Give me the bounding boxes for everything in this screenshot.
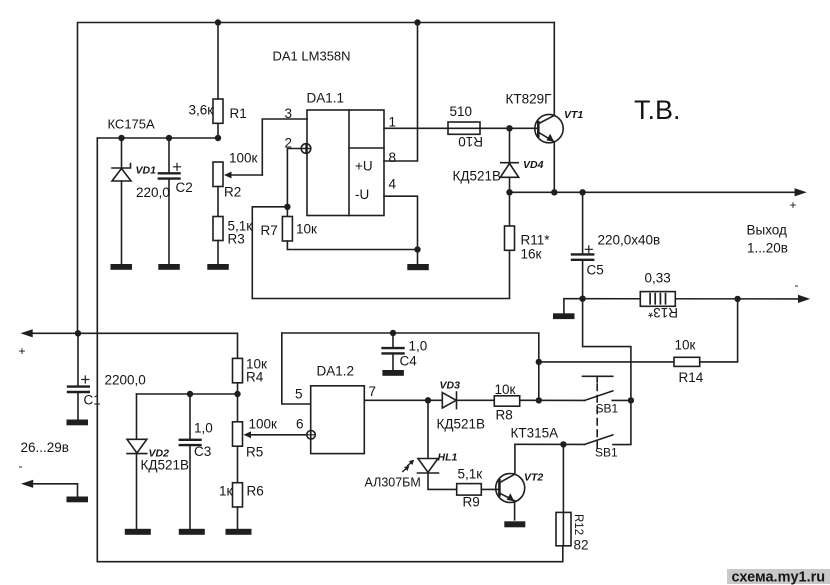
node junction C3 top — [187, 391, 193, 397]
svg-text:HL1: HL1 — [438, 452, 458, 464]
value label 510 — [450, 104, 473, 119]
svg-text:10к: 10к — [495, 382, 516, 397]
resistor R1 — [213, 23, 223, 139]
ground input — [67, 497, 89, 503]
node junction VD4 bottom — [506, 189, 512, 195]
svg-text:R3: R3 — [228, 232, 245, 247]
capacitor C3 — [180, 394, 201, 529]
svg-text:КТ829Г: КТ829Г — [506, 92, 553, 107]
svg-text:DA1.1: DA1.1 — [307, 91, 345, 106]
svg-text:510: 510 — [450, 104, 473, 119]
resistor R7 — [282, 207, 417, 250]
label R9 — [463, 495, 480, 510]
value label 1,0 C4 — [409, 339, 428, 354]
svg-text:SB1: SB1 — [596, 402, 619, 416]
svg-text:100к: 100к — [229, 151, 258, 166]
value label 10к R14 — [675, 338, 696, 353]
svg-text:5,1к: 5,1к — [458, 467, 483, 482]
label АЛ307БМ — [365, 476, 421, 490]
svg-text:10к: 10к — [296, 222, 317, 237]
resistor R12 — [556, 444, 571, 545]
svg-text:R5: R5 — [246, 445, 263, 460]
label VD1 — [136, 165, 157, 177]
node junction R14 riser — [734, 296, 740, 302]
ground VD1 — [111, 264, 133, 270]
node junction VD1 top — [118, 135, 124, 141]
value label 1к — [219, 484, 233, 499]
label R1 — [230, 106, 247, 121]
node junction C5 bottom — [579, 296, 585, 302]
node junction SB1 right — [628, 397, 634, 403]
label SB1 lower — [595, 446, 618, 460]
node junction C2 top — [166, 135, 172, 141]
label HL1 — [438, 452, 458, 464]
wire VT2 collector line — [515, 443, 584, 445]
node junction VD4 top — [506, 125, 512, 131]
value label 5,1к R9 — [458, 467, 483, 482]
label VT1 — [564, 109, 583, 121]
label R3 — [228, 232, 245, 247]
svg-text:R12: R12 — [572, 514, 584, 535]
LED arrows HL1 — [403, 460, 414, 472]
value label 3,6к — [189, 103, 214, 118]
label VT2 — [524, 472, 543, 484]
label SB1 upper — [596, 402, 619, 416]
label R12 (rotated) — [572, 514, 584, 535]
label VD2 — [149, 448, 170, 460]
svg-text:C4: C4 — [400, 354, 418, 369]
svg-text:4: 4 — [389, 177, 397, 192]
op-amp U DA1.1 — [307, 110, 384, 216]
svg-text:VD1: VD1 — [136, 165, 157, 177]
wire output positive rail — [510, 188, 807, 196]
diode VD2 — [127, 394, 147, 529]
value label 5,1к — [228, 219, 253, 234]
capacitor C1 — [68, 333, 89, 419]
label C1 — [84, 393, 101, 408]
potentiometer R5 — [233, 394, 307, 446]
value label 1,0 C3 — [194, 421, 213, 436]
transistor VT2 — [496, 444, 525, 520]
label КД521В VD3 — [437, 417, 486, 432]
svg-text:26...29в: 26...29в — [21, 440, 69, 455]
svg-text:Выход: Выход — [747, 223, 788, 238]
svg-text:КС175А: КС175А — [108, 117, 156, 132]
svg-text:VD3: VD3 — [440, 380, 461, 392]
diode VD3 — [442, 392, 456, 409]
svg-text:1,0: 1,0 — [194, 421, 213, 436]
wire bottom return loop — [97, 138, 563, 562]
label -U — [355, 187, 369, 202]
ground VD2 — [125, 529, 151, 535]
svg-text:3: 3 — [285, 106, 293, 121]
label C3 — [194, 444, 211, 459]
label КТ829Г — [506, 92, 553, 107]
pin number 6 — [296, 417, 304, 432]
wire VD2/C3/R4 node — [137, 393, 238, 395]
svg-text:+U: +U — [355, 159, 373, 174]
pin number 3 — [285, 106, 293, 121]
wire pin 3 — [262, 119, 307, 175]
svg-text:-U: -U — [355, 187, 369, 202]
node junction pin4/R7 — [414, 246, 420, 252]
svg-text:Т.В.: Т.В. — [634, 95, 681, 125]
svg-text:R9: R9 — [463, 495, 480, 510]
label КД521В — [453, 169, 502, 184]
label R13* (rotated) — [647, 305, 678, 320]
LED HL1 — [418, 400, 457, 489]
svg-text:100к: 100к — [249, 417, 278, 432]
svg-text:SB1: SB1 — [595, 446, 618, 460]
svg-text:R1: R1 — [230, 106, 247, 121]
pin number 2 — [285, 136, 293, 151]
svg-text:5: 5 — [295, 387, 303, 402]
svg-text:10к: 10к — [675, 338, 696, 353]
svg-text:R6: R6 — [247, 484, 264, 499]
label R2 — [224, 185, 241, 200]
wire input positive line — [21, 329, 238, 358]
resistor R4 — [233, 358, 243, 394]
wire output sense line — [583, 295, 811, 303]
label - input — [19, 459, 23, 473]
resistor R10 — [448, 122, 480, 134]
svg-text:R11*: R11* — [521, 233, 551, 248]
wire feedback to output sense — [252, 207, 287, 299]
resistor R3 — [213, 187, 223, 265]
value label 10к R8 — [495, 382, 516, 397]
svg-text:R4: R4 — [246, 370, 264, 385]
svg-text:КД521В: КД521В — [453, 169, 502, 184]
resistor R8 — [494, 396, 519, 406]
svg-text:C3: C3 — [194, 444, 211, 459]
node junction R4/R5 — [234, 391, 240, 397]
node junction R12 top — [560, 441, 566, 447]
value label 10к R4 — [246, 357, 267, 372]
label R11* — [521, 233, 551, 248]
svg-text:КТ315А: КТ315А — [511, 426, 559, 441]
svg-text:+: + — [19, 344, 26, 358]
pin number 7 — [369, 384, 377, 399]
svg-text:R10: R10 — [458, 134, 483, 149]
label КС175А — [108, 117, 156, 132]
svg-text:R14: R14 — [679, 370, 704, 385]
node junction on top rail at pin8 riser — [414, 19, 420, 25]
svg-text:1: 1 — [389, 115, 397, 130]
value label 2200,0 — [105, 373, 146, 388]
switch SB1 lower — [584, 435, 613, 445]
transistor VT1 — [535, 23, 563, 193]
ground C5 — [553, 299, 583, 319]
label КД521В VD2 — [141, 458, 190, 473]
svg-text:-: - — [19, 459, 23, 473]
node junction HL1 tap — [425, 397, 431, 403]
label +U — [355, 159, 373, 174]
resistor R6 — [233, 446, 243, 529]
label 1...20в — [747, 241, 788, 256]
node junction C5 top — [579, 189, 585, 195]
resistor R13 — [640, 292, 675, 307]
ground C2 — [158, 264, 180, 270]
capacitor C2 — [159, 138, 181, 264]
svg-text:0,33: 0,33 — [645, 271, 671, 286]
pin number 8 — [389, 150, 397, 165]
wire top supply rail and left border — [78, 23, 555, 334]
label R14 — [679, 370, 704, 385]
svg-text:1...20в: 1...20в — [747, 241, 788, 256]
svg-text:схема.my1.ru: схема.my1.ru — [732, 570, 826, 585]
wire pin 1 through R10 — [384, 127, 536, 129]
node junction VT1 emitter — [551, 189, 557, 195]
value label 220,0 — [136, 185, 170, 200]
ground op-amp — [407, 264, 429, 270]
label - output faint — [795, 278, 799, 292]
value label 0,33 — [645, 271, 671, 286]
label КТ315А — [511, 426, 559, 441]
svg-text:8: 8 — [389, 150, 397, 165]
wire КС175А node — [97, 137, 218, 139]
value label 16к — [521, 247, 542, 262]
resistor R14 — [539, 299, 738, 367]
zener VD1 — [112, 138, 131, 264]
ground C3 — [179, 529, 205, 535]
svg-text:КД521В: КД521В — [437, 417, 486, 432]
svg-text:АЛ307БМ: АЛ307БМ — [365, 476, 421, 490]
svg-text:VD4: VD4 — [523, 159, 544, 171]
wire pin 8 riser — [384, 23, 418, 162]
label C4 — [400, 354, 418, 369]
svg-text:2: 2 — [285, 136, 293, 151]
wire switch riser — [583, 299, 631, 445]
svg-text:VT2: VT2 — [524, 472, 543, 484]
svg-text:220,0: 220,0 — [136, 185, 170, 200]
capacitor C4 — [383, 333, 404, 370]
label C5 — [587, 263, 604, 278]
watermark — [727, 569, 830, 585]
node junction C1 top — [75, 330, 81, 336]
svg-text:КД521В: КД521В — [141, 458, 190, 473]
svg-text:1к: 1к — [219, 484, 233, 499]
label R6 — [247, 484, 264, 499]
svg-text:VT1: VT1 — [564, 109, 583, 121]
svg-text:R13*: R13* — [647, 305, 678, 320]
pin number 1 — [389, 115, 397, 130]
pin number 5 — [295, 387, 303, 402]
ground VT2 — [504, 521, 525, 527]
pin number 4 — [389, 177, 397, 192]
ground R6 — [226, 529, 252, 535]
diode VD4 — [500, 128, 518, 192]
svg-text:R8: R8 — [496, 408, 513, 423]
node junction on top rail at R1 — [215, 19, 221, 25]
label C2 — [176, 180, 193, 195]
wire pin 2 with inverting marker — [287, 144, 310, 207]
node junction pin5 riser — [536, 397, 542, 403]
label DA1.2 — [317, 364, 355, 379]
resistor R9 — [457, 484, 498, 496]
capacitor C5 — [572, 192, 593, 298]
wire pin 7 line — [364, 399, 584, 401]
wire input negative to ground — [21, 480, 78, 497]
label R7 — [261, 223, 278, 238]
svg-text:7: 7 — [369, 384, 377, 399]
label R10 (rotated) — [458, 134, 483, 149]
node junction C4 top — [390, 330, 396, 336]
value label 220,0х40в — [598, 233, 661, 248]
svg-text:3,6к: 3,6к — [189, 103, 214, 118]
svg-text:R2: R2 — [224, 185, 241, 200]
label Выход — [747, 223, 788, 238]
svg-text:C5: C5 — [587, 263, 604, 278]
ground R3 — [207, 264, 229, 270]
node junction R1/R2 — [215, 135, 221, 141]
svg-text:82: 82 — [574, 538, 589, 553]
node junction R7 top / pin 2 — [284, 204, 290, 210]
svg-text:1,0: 1,0 — [409, 339, 428, 354]
label + output — [790, 198, 797, 212]
svg-text:+: + — [790, 198, 797, 212]
op-amp U DA1.2 — [311, 386, 365, 454]
node junction R14 tap — [536, 359, 542, 365]
potentiometer R2 — [213, 162, 262, 187]
svg-text:DA1 LM358N: DA1 LM358N — [273, 49, 351, 64]
svg-text:C2: C2 — [176, 180, 193, 195]
label DA1.1 — [307, 91, 345, 106]
svg-text:R7: R7 — [261, 223, 278, 238]
value label 10к — [296, 222, 317, 237]
label Т.В. — [634, 95, 681, 125]
svg-text:2200,0: 2200,0 — [105, 373, 146, 388]
svg-text:16к: 16к — [521, 247, 542, 262]
label R4 — [246, 370, 264, 385]
label 26...29в — [21, 440, 69, 455]
label VD4 — [523, 159, 544, 171]
value label 100к — [229, 151, 258, 166]
wire pin5 feed line — [282, 333, 539, 404]
value label 82 — [574, 538, 589, 553]
switch SB1 upper — [583, 376, 631, 448]
svg-text:220,0х40в: 220,0х40в — [598, 233, 661, 248]
svg-text:-: - — [795, 278, 799, 292]
label R5 — [246, 445, 263, 460]
svg-text:DA1.2: DA1.2 — [317, 364, 355, 379]
wire pin 4 to ground — [384, 196, 418, 264]
label DA1 LM358N — [273, 49, 351, 64]
wire pin 6 with inverting marker — [307, 431, 316, 440]
value label 100к R5 — [249, 417, 278, 432]
label + input — [19, 344, 26, 358]
ground C4 — [382, 370, 404, 376]
label VD3 — [440, 380, 461, 392]
svg-text:C1: C1 — [84, 393, 101, 408]
svg-text:6: 6 — [296, 417, 304, 432]
label R8 — [496, 408, 513, 423]
ground C1 — [67, 420, 89, 426]
resistor R11 — [252, 192, 514, 298]
